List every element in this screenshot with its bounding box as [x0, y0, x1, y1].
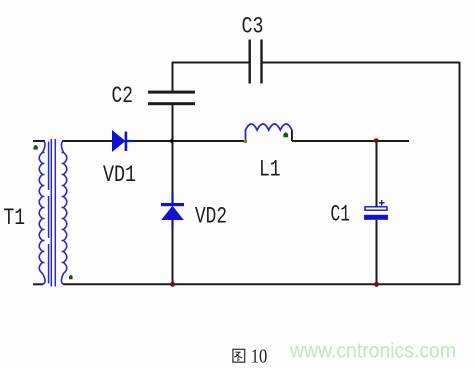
wire: top rail left of C3	[172, 62, 249, 64]
svg-text:10: 10	[251, 346, 268, 367]
figure caption number 10	[251, 346, 268, 367]
figure caption 图 (drawn glyph)	[233, 349, 245, 362]
wire: C1 bottom to bottom rail	[376, 220, 378, 285]
T1 secondary polarity dot	[69, 275, 73, 279]
C2 label	[112, 83, 134, 109]
diode VD1	[112, 130, 133, 152]
wire: L1 right to output end	[292, 140, 409, 142]
node B junction dot	[374, 138, 379, 143]
L1 polarity dot	[283, 132, 288, 137]
VD1 label	[103, 162, 136, 188]
inductor L1	[246, 124, 292, 141]
VD2 label	[195, 204, 227, 230]
diode VD2	[161, 193, 184, 227]
C3 label	[242, 14, 264, 40]
svg-text:C1: C1	[331, 202, 351, 228]
svg-text:C3: C3	[242, 14, 264, 40]
C1 label	[331, 202, 351, 228]
svg-text:L1: L1	[259, 156, 281, 182]
svg-text:www.cntronics.com: www.cntronics.com	[289, 340, 456, 363]
wire: VD2 anode down to bottom rail	[172, 226, 174, 285]
wire: right side vertical	[459, 62, 461, 285]
capacitor C1 (polarized)	[364, 200, 388, 220]
wire: secondary top to VD1 anode	[62, 140, 112, 142]
junction: C1 at bottom rail	[374, 282, 379, 287]
transformer T1	[39, 139, 67, 287]
T1 label	[4, 205, 26, 231]
watermark	[289, 340, 456, 363]
wire: node A to L1 left	[172, 140, 245, 142]
wire: bottom rail	[63, 283, 460, 285]
svg-text:VD1: VD1	[103, 162, 136, 188]
node A junction dot	[169, 138, 175, 143]
capacitor C3	[249, 40, 263, 84]
capacitor C2	[148, 91, 195, 106]
L1 pin dot (olive)	[244, 140, 248, 144]
svg-text:T1: T1	[4, 205, 26, 231]
wire: C2 top to top-left corner	[172, 62, 174, 91]
wire: top rail right of C3	[262, 62, 460, 64]
T1 primary polarity dot	[34, 145, 38, 150]
wire: C2 bottom to node A	[172, 105, 174, 141]
L1 label	[259, 156, 281, 182]
wire: VD1 cathode to node A	[132, 140, 172, 142]
wire: primary bottom stub	[33, 283, 43, 285]
wire: node A down to VD2 cathode	[172, 142, 174, 195]
junction: VD2 anode at bottom rail	[170, 282, 175, 287]
svg-text:VD2: VD2	[195, 204, 227, 230]
wire: transformer primary top stub	[33, 140, 45, 142]
wire: node B down to C1 top	[376, 141, 378, 207]
svg-text:C2: C2	[112, 83, 134, 109]
